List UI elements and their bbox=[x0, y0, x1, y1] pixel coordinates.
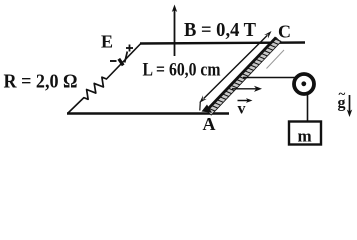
label minus sign of battery bbox=[110, 60, 117, 62]
battery E negative plate bbox=[119, 59, 123, 66]
svg-text:E: E bbox=[101, 32, 113, 52]
rod shadow line bbox=[267, 50, 285, 69]
label plus sign of battery bbox=[126, 45, 133, 52]
svg-text:C: C bbox=[278, 22, 291, 42]
wire left slanted lower segment bbox=[68, 98, 85, 114]
resistor R bbox=[84, 77, 107, 99]
L dimension double arrow bbox=[199, 31, 271, 111]
svg-text:v: v bbox=[238, 101, 246, 118]
label g vector with down arrow bbox=[338, 86, 353, 117]
rod AC body (hatched 3D bar) bbox=[202, 38, 282, 116]
svg-text:B = 0,4 T: B = 0,4 T bbox=[184, 19, 257, 41]
svg-text:A: A bbox=[203, 114, 216, 134]
battery E positive plate bbox=[125, 52, 128, 63]
pulley bbox=[294, 74, 314, 94]
label v vector bbox=[238, 98, 253, 117]
svg-text:R = 2,0 Ω: R = 2,0 Ω bbox=[4, 71, 78, 93]
velocity arrow on rod bbox=[232, 86, 262, 92]
wire bottom rail bbox=[67, 112, 229, 115]
B field arrow bbox=[172, 5, 177, 57]
rope from pulley to mass bbox=[307, 92, 309, 123]
wire between resistor and top rail (passes battery) bbox=[106, 44, 141, 80]
rope from rod to pulley bbox=[243, 77, 297, 79]
svg-text:L = 60,0 cm: L = 60,0 cm bbox=[143, 60, 221, 81]
svg-text:~: ~ bbox=[339, 86, 346, 101]
wire top rail bbox=[140, 43, 305, 44]
mass m box bbox=[289, 122, 321, 146]
svg-text:m: m bbox=[298, 127, 312, 146]
